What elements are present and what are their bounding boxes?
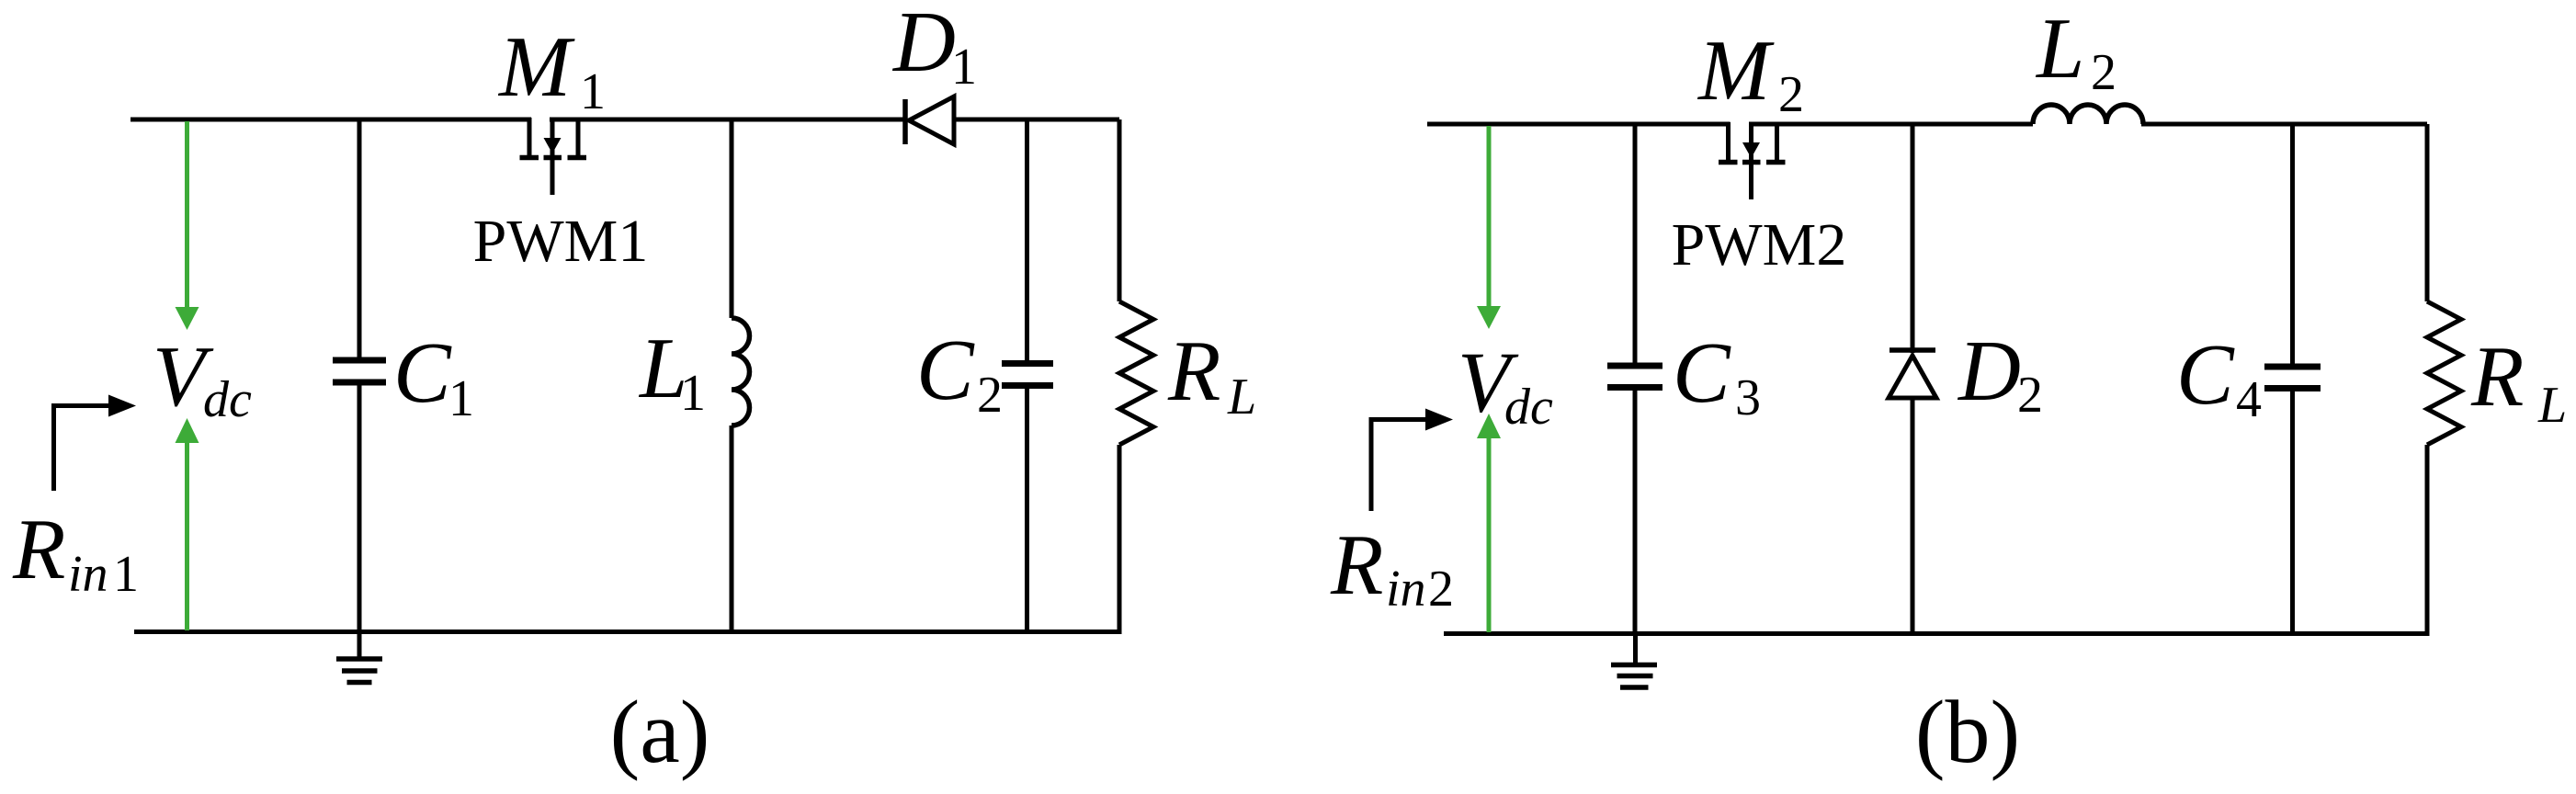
label Vdc (b) — [1458, 335, 1553, 437]
svg-text:C: C — [2176, 327, 2235, 423]
svg-text:R: R — [12, 502, 65, 597]
capacitor C2 — [1002, 119, 1053, 632]
svg-text:2: 2 — [1778, 66, 1804, 123]
wire top rail mid segment (a) — [550, 118, 905, 122]
svg-text:PWM2: PWM2 — [1672, 211, 1847, 278]
wire top rail right segment (a) — [954, 118, 1119, 122]
label D2 — [1957, 323, 2043, 424]
svg-text:R: R — [1167, 323, 1220, 419]
svg-text:dc: dc — [203, 371, 252, 428]
svg-text:C: C — [393, 325, 452, 421]
svg-text:1: 1 — [580, 63, 606, 120]
svg-text:1: 1 — [113, 546, 139, 603]
arrow Vdc up (b) — [1477, 414, 1501, 632]
diode D2 — [1889, 124, 1936, 634]
wire bottom rail (b) — [1444, 631, 2430, 636]
svg-text:2: 2 — [2091, 44, 2116, 101]
transistor M2 — [1719, 122, 1786, 199]
ground (a) — [336, 632, 382, 683]
label Rin1 — [12, 502, 139, 603]
ground (b) — [1611, 634, 1657, 688]
label C1 — [393, 325, 474, 427]
label L2 — [2035, 1, 2116, 101]
label Rin2 — [1330, 517, 1454, 618]
svg-text:M: M — [497, 19, 575, 115]
label RL (b) — [2470, 329, 2567, 434]
wire top rail left segment (b) — [1427, 122, 1731, 127]
label D1 — [891, 0, 977, 96]
svg-text:M: M — [1697, 23, 1775, 119]
transistor M1 — [520, 118, 587, 195]
svg-text:PWM1: PWM1 — [473, 208, 649, 275]
arrow Vdc down (b) — [1477, 126, 1501, 329]
svg-text:4: 4 — [2236, 371, 2262, 428]
svg-text:2: 2 — [1428, 561, 1454, 618]
label RL (a) — [1167, 323, 1256, 425]
label C4 — [2176, 327, 2262, 428]
svg-text:in: in — [68, 546, 108, 603]
svg-text:C: C — [916, 323, 975, 418]
svg-text:R: R — [1330, 517, 1383, 613]
capacitor C3 — [1607, 124, 1662, 634]
svg-text:3: 3 — [1735, 369, 1761, 426]
wire bottom rail (a) — [134, 630, 1122, 634]
label Vdc (a) — [153, 329, 252, 428]
capacitor C1 — [333, 119, 386, 632]
inductor L2 — [2033, 105, 2143, 124]
svg-text:(b): (b) — [1915, 683, 2020, 782]
wire top rail right segment (b) — [2141, 122, 2427, 127]
resistor RL (a) — [1119, 119, 1153, 632]
svg-text:(a): (a) — [610, 683, 710, 782]
svg-text:in: in — [1386, 561, 1426, 618]
resistor RL (b) — [2427, 124, 2461, 634]
svg-text:2: 2 — [2017, 367, 2043, 424]
wire top rail mid segment (b) — [1749, 122, 2033, 127]
svg-text:L: L — [1227, 369, 1256, 425]
svg-text:D: D — [1957, 323, 2021, 419]
wire top rail left segment (a) — [131, 118, 531, 122]
svg-text:1: 1 — [951, 39, 977, 96]
diode D1 — [905, 96, 954, 144]
svg-text:R: R — [2470, 329, 2524, 425]
label L1 — [638, 321, 706, 422]
label M1 — [497, 19, 606, 120]
svg-text:2: 2 — [977, 367, 1003, 424]
inductor L1 — [732, 119, 750, 632]
arrow Vdc down (a) — [176, 121, 199, 330]
label C3 — [1673, 325, 1761, 426]
arrow Rin2 pointer — [1371, 409, 1453, 512]
capacitor C4 — [2264, 124, 2321, 634]
svg-text:C: C — [1673, 325, 1731, 421]
svg-text:L: L — [2537, 377, 2567, 434]
arrow Rin1 pointer — [54, 395, 137, 492]
svg-text:dc: dc — [1504, 379, 1553, 436]
svg-text:L: L — [2035, 1, 2084, 96]
svg-text:1: 1 — [680, 365, 706, 422]
label M2 — [1697, 23, 1804, 123]
label C2 — [916, 323, 1003, 424]
svg-text:1: 1 — [448, 370, 474, 427]
svg-text:D: D — [891, 0, 956, 90]
arrow Vdc up (a) — [176, 418, 199, 630]
